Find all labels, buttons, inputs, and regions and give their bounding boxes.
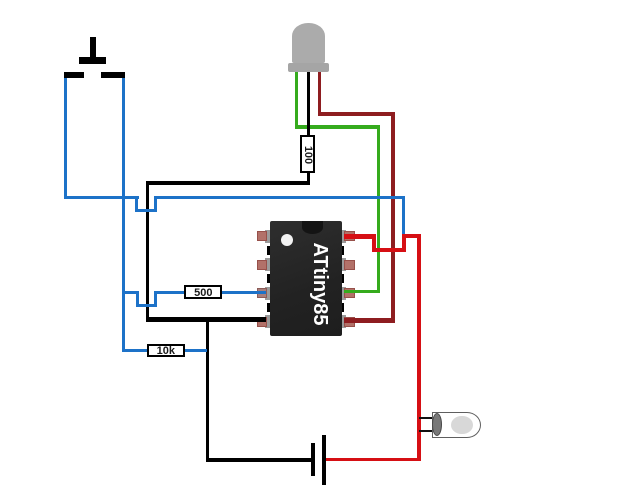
IC U1 ATtiny85 grey pin shoulders left: [265, 230, 270, 243]
pushbutton S1 right contact: [101, 72, 125, 78]
wire: black horizontal from elbow to 100-resistor bottom stub: [146, 181, 310, 185]
IR LED inner glow circle: [451, 416, 473, 434]
wire: blue jog over black (down leg): [135, 196, 138, 211]
IC U1 grey pin shoulders right: [341, 230, 346, 243]
wire: black vertical from 100-resistor elbow down to ground bus: [146, 181, 149, 322]
wire: blue 500 jog bottom run: [136, 304, 158, 307]
IR LED body: [432, 412, 481, 438]
wire: red horizontal to outer drop: [402, 234, 421, 238]
IC U1 pin 4 left: [257, 317, 268, 327]
wire: black vertical RGB LED middle leg to 100 resistor: [307, 71, 310, 137]
wire: black horizontal to battery negative plate: [206, 458, 312, 461]
IC U1 pin 3 left: [257, 288, 268, 298]
wire: red VCC stub from chip pin 1 right: [344, 234, 376, 239]
wire: red jog down leg: [372, 234, 376, 252]
RGB LED body dome: [292, 23, 325, 64]
wire: blue jog over black (bottom run): [135, 209, 157, 212]
wire: black ground bus horizontal to chip pin 4 left: [146, 317, 266, 323]
RGB LED flange: [288, 63, 328, 72]
IR LED leg 1: [419, 417, 434, 419]
wire: blue jog over black (up leg): [154, 196, 157, 211]
wire: blue 500 row segment 1: [122, 291, 140, 294]
wire: blue 500 row segment 2 into resistor: [154, 291, 190, 294]
wire: red jog bottom run: [372, 248, 406, 252]
wire: green vertical right run: [377, 125, 381, 293]
wire: red jog up leg: [402, 234, 406, 252]
resistor 500 box: [184, 285, 221, 298]
wire: blue horizontal node row segment 1: [64, 196, 140, 199]
wire: blue 10k row segment 1: [122, 349, 151, 352]
wire: blue 10k row segment 2 to ground drop: [184, 349, 207, 352]
IC U1 label ATtiny85: [308, 224, 332, 344]
wire: dark red vertical RGB LED right leg: [318, 71, 321, 116]
wire: blue vertical drop joining VCC: [402, 196, 405, 236]
resistor 10k box: [147, 344, 185, 357]
wire: red horizontal from battery positive plate: [325, 458, 421, 461]
wire: black vertical ground drop to battery: [206, 317, 209, 462]
resistor 100 box: [300, 135, 315, 173]
IC U1 black nubs left edge: [267, 246, 271, 255]
wire: green horizontal into chip pin 3 right: [344, 290, 380, 294]
wire: green horizontal top run: [295, 125, 381, 129]
wire: red long vertical to IR LED / battery: [417, 234, 421, 461]
resistor 500 label: [183, 287, 223, 299]
wire: blue horizontal node row segment 2 to VCC drop: [154, 196, 405, 199]
wire: blue vertical from switch left terminal down to node row: [64, 78, 67, 200]
pushbutton S1 stem: [90, 37, 96, 57]
IC U1 pin 1 left (salmon): [257, 231, 268, 241]
IC U1 pin1 white dot: [281, 234, 294, 247]
wire: blue 500 row segment 3 resistor to chip pin 3 left: [220, 291, 266, 294]
IC U1 pin 6 right: [344, 288, 355, 298]
wire: dark red vertical right run: [391, 112, 394, 323]
IC U1 pin 8 right (top): [344, 231, 355, 241]
wire: dark red horizontal into chip pin 4 right: [344, 318, 395, 323]
wire: blue vertical from switch right terminal down to 10k row: [122, 78, 125, 353]
pushbutton S1 cross bar: [79, 57, 106, 64]
resistor 100 label: [302, 135, 314, 175]
IC U1 ATtiny85 body: [270, 221, 342, 336]
wire: dark red horizontal top run: [318, 112, 395, 116]
IR LED leg 2: [419, 430, 434, 432]
battery BT1 positive (long) plate: [322, 435, 326, 485]
IC U1 black nubs right edge: [341, 246, 345, 255]
IR LED flange ellipse: [432, 413, 442, 436]
IC U1 pin 2 left: [257, 260, 268, 270]
wire: blue 500 jog up leg: [154, 291, 157, 307]
pushbutton S1 left contact: [64, 72, 85, 78]
IC U1 notch: [302, 221, 323, 234]
wire: green vertical RGB LED left leg: [295, 71, 298, 129]
IC U1 pin 5 right: [344, 317, 355, 327]
wire: black stub below 100 resistor: [307, 172, 310, 185]
resistor 10k label: [146, 345, 186, 357]
IC U1 pin 7 right: [344, 260, 355, 270]
wire: blue 500 jog down leg: [136, 291, 139, 307]
battery BT1 negative (short) plate: [311, 443, 315, 476]
